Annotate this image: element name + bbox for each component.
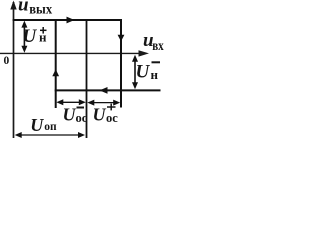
- svg-text:U: U: [93, 104, 107, 124]
- axis u_вых (vertical): [10, 1, 16, 139]
- svg-text:u: u: [18, 0, 29, 16]
- dimension arrow U_ос+ (y=102.6): [87, 100, 120, 106]
- svg-text:U: U: [23, 26, 38, 47]
- dimension arrow U_н+ (x=24.4): [21, 21, 27, 53]
- svg-text:н: н: [151, 67, 159, 82]
- svg-text:U: U: [63, 104, 77, 124]
- svg-text:ос: ос: [76, 111, 88, 125]
- svg-text:0: 0: [4, 55, 10, 67]
- dimension arrow U_н- (x=135): [132, 55, 138, 89]
- dimension arrow U_ос- (y=102.3): [56, 99, 86, 105]
- arrow down on right vertical: [118, 35, 125, 42]
- axis u_вх (horizontal): [0, 50, 149, 56]
- svg-text:вх: вх: [152, 38, 164, 53]
- svg-text:н: н: [39, 30, 47, 45]
- dimension arrow U_оп (y=135): [15, 132, 85, 138]
- arrow up on left vertical: [52, 69, 59, 76]
- svg-text:оп: оп: [44, 121, 57, 133]
- wire middle vertical U_оп marker: [86, 19, 88, 138]
- arrow right on top level: [67, 17, 75, 24]
- wire top level U_н+: [13, 19, 122, 21]
- svg-text:ос: ос: [106, 111, 118, 125]
- wire left loop vertical (rising transition): [55, 19, 57, 108]
- svg-text:U: U: [30, 115, 44, 135]
- svg-text:вых: вых: [29, 3, 52, 18]
- wire right loop vertical (falling transition): [120, 19, 122, 108]
- svg-text:U: U: [136, 61, 151, 82]
- arrow left on bottom level: [100, 87, 108, 94]
- wire bottom level U_н-: [55, 89, 161, 91]
